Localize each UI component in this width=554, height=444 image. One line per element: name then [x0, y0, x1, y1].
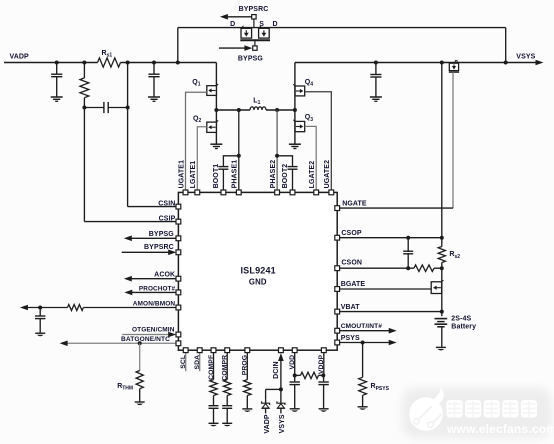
wire bypass top rail — [178, 27, 506, 29]
resistor COMPR — [224, 350, 231, 395]
svg-text:CSON: CSON — [341, 260, 362, 267]
pin label CSON — [341, 260, 362, 267]
svg-text:PHASE1: PHASE1 — [232, 160, 239, 189]
wire BGATE pin trace — [337, 288, 431, 290]
pin label VBAT — [341, 304, 361, 311]
pin label PROCHOT# — [139, 285, 176, 292]
wire PHASE1 trace — [237, 110, 241, 192]
svg-text:COMPF: COMPF — [208, 355, 215, 380]
capacitor VSYS — [370, 61, 381, 97]
transistor NGATE FET — [449, 60, 459, 72]
transistor bypass FET right (D) — [259, 26, 270, 38]
pin UGATE2 top — [329, 190, 334, 195]
wire CMOUT/INT# arrow — [337, 328, 397, 334]
svg-text:VBAT: VBAT — [341, 304, 361, 311]
svg-text:BOOT2: BOOT2 — [282, 164, 289, 189]
resistor COMPF — [210, 350, 217, 395]
pin NGATE right — [335, 206, 340, 211]
wire AMON/BMON trace — [83, 307, 178, 309]
pin label CSIP — [159, 216, 176, 223]
wire BYPSRC arrow in — [122, 250, 177, 256]
pin VDDP bottom — [321, 348, 326, 353]
pin label LGATE1 rotated — [190, 161, 197, 189]
ground below RTHM — [135, 402, 145, 405]
resistor RPSYS — [359, 343, 390, 407]
svg-text:OTGEN/CMIN: OTGEN/CMIN — [132, 327, 175, 334]
pin BYPSG left — [176, 236, 181, 241]
svg-text:CSOP: CSOP — [341, 230, 361, 237]
capacitor sense-filter horizontal — [84, 102, 129, 113]
wire VDDP trace — [322, 350, 325, 375]
pin label AMON/BMON — [133, 300, 176, 307]
wire UGATE2 gate trace — [305, 92, 332, 193]
pin label CSIN — [158, 201, 175, 208]
wire gate stem — [254, 40, 256, 45]
pin CSON right — [335, 266, 340, 271]
pin label SCL rotated — [180, 355, 187, 369]
pin label BATGONE/NTC — [121, 336, 170, 343]
node D label left — [230, 21, 235, 28]
pin label PHASE2 rotated — [270, 160, 277, 189]
svg-text:PROCHOT#: PROCHOT# — [139, 285, 176, 292]
pin PROCHOT# left — [176, 290, 181, 295]
svg-text:PROG: PROG — [242, 355, 249, 375]
svg-text:VDDP: VDDP — [318, 354, 325, 374]
wire PSYS arrow — [337, 340, 397, 346]
wire Rs1 sense right branch — [126, 61, 130, 108]
svg-text:UGATE2: UGATE2 — [324, 160, 331, 188]
ground below Q2 — [210, 144, 222, 148]
svg-text:PHASE2: PHASE2 — [270, 160, 277, 189]
pin CSIP left — [176, 219, 181, 224]
pin LGATE1 top — [195, 190, 200, 195]
svg-text:CSIN: CSIN — [158, 201, 175, 208]
wire VSYS rail — [295, 60, 544, 66]
svg-text:BYPSRC: BYPSRC — [144, 244, 174, 251]
ground below Q3 — [289, 144, 301, 148]
svg-text:BYPSRC: BYPSRC — [239, 6, 269, 13]
wire CSIN sense line — [128, 108, 179, 207]
resistor RTHM — [117, 343, 143, 401]
pin label BGATE — [341, 281, 366, 288]
pin label PSYS — [341, 335, 360, 342]
node PHASE2 junction — [275, 108, 279, 112]
wire BYPSG arrow left — [124, 236, 179, 242]
capacitor VDDP — [318, 375, 328, 408]
diode VADP Schottky — [262, 399, 270, 413]
resistor AMON filter — [68, 305, 84, 311]
pin SDA bottom — [197, 348, 202, 353]
svg-text:S: S — [259, 21, 264, 28]
ground below VSYS cap — [370, 97, 382, 101]
wire bypass branch riser — [176, 28, 180, 65]
capacitor BOOT2 — [277, 156, 297, 193]
capacitor COMPR — [222, 396, 232, 423]
wire Q1 drain from VADP rail — [215, 63, 217, 144]
node CSON junction right — [440, 266, 444, 270]
svg-text:D: D — [273, 21, 278, 28]
capacitor second input C — [148, 61, 159, 97]
pin label PHASE1 rotated — [232, 160, 239, 189]
ground below AMON cap — [35, 333, 45, 336]
svg-text:BYPSG: BYPSG — [238, 55, 263, 62]
wire phase line left — [216, 109, 250, 111]
svg-text:LGATE2: LGATE2 — [309, 161, 316, 189]
pin CSOP right — [335, 235, 340, 240]
node CSOP junction right — [440, 236, 444, 240]
pin AMON/BMON left — [176, 305, 181, 310]
pin label SDA rotated — [194, 355, 201, 370]
svg-text:BATGONE/NTC: BATGONE/NTC — [121, 336, 170, 343]
wire DCIN branch to VADP diode — [266, 389, 281, 399]
wire Rs2 to battery column — [441, 263, 443, 317]
svg-text:SDA: SDA — [194, 355, 201, 370]
svg-text:BYPSG: BYPSG — [149, 231, 174, 238]
battery label — [451, 315, 476, 330]
svg-text:2S-4S: 2S-4S — [451, 315, 471, 322]
pin VDD bottom — [292, 348, 297, 353]
ground below COMPR — [222, 423, 232, 426]
wire ACOK arrow — [124, 276, 179, 282]
svg-text:ISL9241: ISL9241 — [240, 265, 275, 275]
op-amp U1 ISL9241 body — [178, 192, 337, 350]
transistor BGATE FET — [431, 280, 443, 293]
capacitor COMPF — [209, 396, 219, 423]
wire AMON arrow — [20, 305, 68, 311]
wire BYPSRC arrow out — [220, 14, 252, 20]
pin label DCIN rotated — [273, 361, 280, 379]
pin label VDDP rotated — [318, 354, 325, 374]
wire NGATE gate stem — [452, 72, 454, 208]
svg-text:AMON/BMON: AMON/BMON — [133, 300, 176, 307]
ground below PROG — [242, 409, 252, 412]
svg-text:D: D — [230, 21, 235, 28]
wire LGATE1 gate trace — [197, 127, 207, 193]
pin PROG bottom — [245, 348, 250, 353]
wire VSYS to CSOP column — [440, 61, 444, 247]
wire NGATE pin trace — [337, 207, 453, 209]
pin label ACOK — [154, 272, 175, 279]
node S label — [259, 21, 264, 28]
svg-text:ACOK: ACOK — [154, 272, 175, 279]
pin PSYS right — [335, 340, 340, 345]
wire LGATE2 gate trace — [305, 126, 317, 192]
wire BYPSG arrow into gate — [219, 45, 252, 51]
wire VDD trace — [293, 350, 297, 377]
pin OTGEN/CMIN left — [176, 332, 181, 337]
inductor L1 — [250, 97, 266, 110]
pin ACOK left — [176, 276, 181, 281]
node PHASE1 junction — [237, 108, 241, 112]
ground below second input cap — [148, 97, 160, 101]
node BYPSG gate terminal — [253, 46, 257, 50]
pin label UGATE2 rotated — [324, 160, 331, 188]
pin label UGATE1 rotated — [178, 160, 185, 188]
wire phase line right — [266, 109, 295, 111]
pin label BYPSG left — [149, 231, 174, 238]
capacitor AMON filter — [35, 308, 45, 333]
svg-text:VDD: VDD — [289, 355, 296, 370]
pin label BOOT2 rotated — [282, 164, 289, 189]
svg-text:VSYS: VSYS — [279, 414, 286, 433]
pin CMOUT/INT# right — [335, 328, 340, 333]
pin DCIN bottom — [279, 348, 284, 353]
wire CSON pin trace — [337, 267, 414, 269]
pin label COMPR rotated — [222, 355, 229, 381]
pin BGATE right — [335, 287, 340, 292]
wire common gate bar — [240, 39, 270, 41]
svg-text:www.elecfans.com: www.elecfans.com — [446, 422, 554, 436]
svg-text:NGATE: NGATE — [342, 201, 367, 208]
node BYPSRC source terminal — [252, 15, 256, 28]
wire CSIP sense line — [84, 108, 178, 222]
wire VBAT pin trace — [337, 310, 444, 314]
node BYPSRC label — [239, 6, 269, 13]
wire Q4 drain to VSYS rail — [294, 63, 296, 144]
pin COMPR bottom — [225, 348, 230, 353]
pin SCL bottom — [183, 348, 188, 353]
capacitor VDD — [290, 375, 300, 408]
pin label NGATE — [342, 201, 367, 208]
pin LGATE2 top — [314, 190, 319, 195]
transistor bypass FET left (D) — [241, 26, 252, 38]
capacitor input C at VADP — [51, 61, 62, 97]
resistor sense-filter vertical — [80, 61, 89, 110]
watermark elecfans logo — [402, 388, 554, 438]
svg-text:DCIN: DCIN — [273, 361, 280, 379]
diode VSYS Schottky — [277, 389, 285, 413]
node VSYS diode label — [279, 414, 286, 433]
resistor PROG — [244, 350, 251, 408]
pin BOOT2 top — [290, 190, 295, 195]
ground below COMPF — [209, 423, 219, 426]
wire VADP rail left segment — [4, 62, 98, 64]
svg-text:VADP: VADP — [264, 414, 271, 434]
transistor Q4 — [293, 79, 313, 96]
resistor Rs2 — [438, 247, 460, 263]
svg-text:PSYS: PSYS — [341, 335, 360, 342]
wire SCL stub — [185, 350, 187, 371]
wire CSOP pin trace — [337, 236, 442, 240]
capacitor BOOT1 — [218, 156, 238, 193]
transistor Q1 — [192, 79, 218, 95]
ground below input cap — [51, 97, 63, 101]
svg-text:LGATE1: LGATE1 — [190, 161, 197, 189]
pin PHASE1 top — [236, 190, 241, 195]
wire PHASE2 trace — [275, 110, 279, 192]
node phase junction right — [293, 108, 297, 112]
wire SDA stub — [199, 350, 201, 371]
transistor Q2 — [193, 115, 218, 132]
node phase junction left — [214, 108, 218, 112]
pin BYPSRC left — [176, 250, 181, 255]
node D label right — [273, 21, 278, 28]
wire VADP rail right segment — [121, 62, 217, 64]
wire UGATE1 gate trace — [186, 92, 207, 192]
svg-text:GND: GND — [249, 277, 267, 286]
svg-text:CSIP: CSIP — [159, 216, 176, 223]
node BYPSG label — [238, 55, 263, 62]
svg-text:VSYS: VSYS — [516, 53, 535, 60]
pin CSIN left — [176, 204, 181, 209]
ground below RPSYS — [358, 407, 368, 410]
node VADP diode label — [264, 414, 271, 434]
resistor Rs1 — [98, 50, 121, 67]
wire BATGONE/NTC trace — [60, 341, 179, 347]
svg-text:CMOUT/INT#: CMOUT/INT# — [341, 323, 383, 330]
svg-text:VADP: VADP — [10, 54, 30, 61]
svg-text:COMPR: COMPR — [222, 355, 229, 381]
svg-text:BOOT1: BOOT1 — [213, 164, 220, 189]
pin BOOT1 top — [221, 190, 226, 195]
pin label OTGEN/CMIN — [132, 327, 175, 334]
resistor VDD-VDDP — [295, 372, 326, 378]
battery 2S-4S — [435, 319, 448, 347]
pin label CMOUT/INT# — [341, 323, 383, 330]
svg-text:BGATE: BGATE — [341, 281, 366, 288]
pin BATGONE/NTC left — [176, 341, 181, 346]
pin label VDD rotated — [289, 355, 296, 370]
node VSYS label — [516, 53, 535, 60]
pin PHASE2 top — [275, 190, 280, 195]
node VADP input rail label — [10, 54, 30, 61]
pin label CSOP — [341, 230, 361, 237]
wire CSON resistor to column — [434, 267, 442, 269]
resistor CSON filter — [414, 265, 434, 272]
wire OTGEN/CMIN arrow — [122, 332, 176, 338]
pin label COMPF rotated — [208, 355, 215, 380]
pin label LGATE2 rotated — [309, 161, 316, 189]
capacitor CSOP-CSON — [403, 238, 413, 271]
pin label PROG rotated — [242, 355, 249, 375]
pin VBAT right — [335, 309, 340, 314]
wire DCIN trace — [278, 353, 284, 391]
pin label BOOT1 rotated — [213, 164, 220, 189]
ground below VDDP cap — [319, 409, 329, 412]
ground below VDD cap — [290, 409, 300, 412]
transistor Q3 — [293, 114, 313, 132]
svg-text:UGATE1: UGATE1 — [178, 160, 185, 188]
ground below battery — [436, 347, 446, 350]
wire PROCHOT# arrow — [124, 290, 178, 296]
svg-text:Battery: Battery — [451, 324, 476, 331]
pin label BYPSRC left — [144, 244, 174, 251]
pin COMPF bottom — [211, 348, 216, 353]
wire bypass down to VSYS — [504, 28, 508, 65]
pin UGATE1 top — [183, 190, 188, 195]
svg-text:SCL: SCL — [180, 355, 187, 369]
